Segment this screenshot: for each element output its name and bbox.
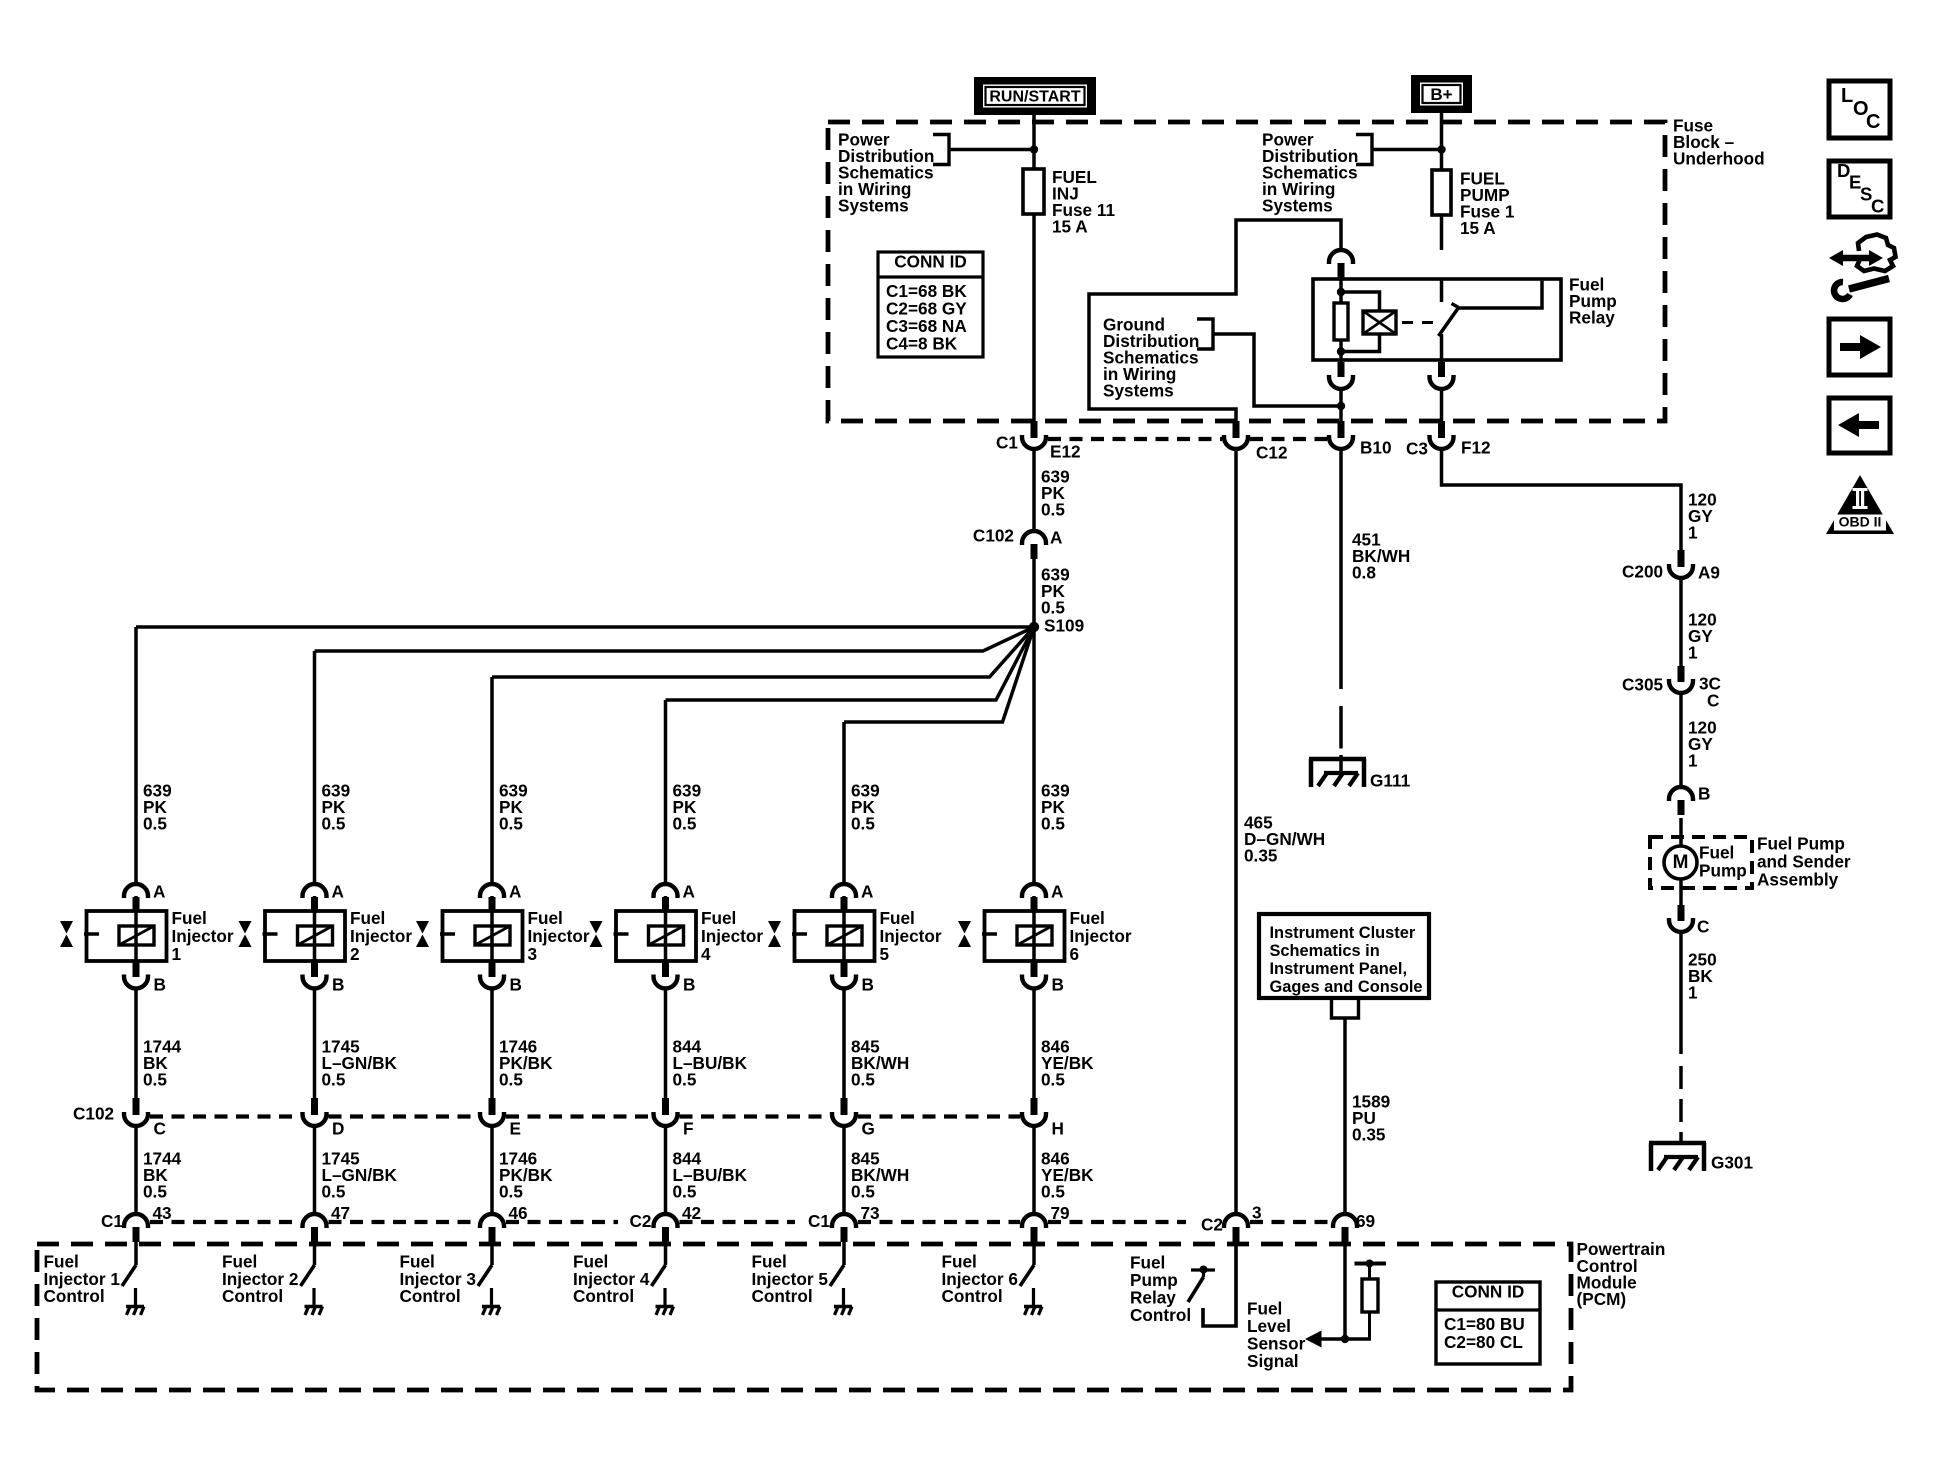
svg-text:C3: C3: [1406, 439, 1428, 459]
svg-text:69: 69: [1356, 1211, 1375, 1231]
svg-text:Control: Control: [222, 1286, 283, 1306]
svg-text:0.5: 0.5: [851, 1182, 875, 1202]
svg-text:G: G: [862, 1119, 875, 1139]
svg-text:Control: Control: [44, 1286, 105, 1306]
svg-text:Control: Control: [400, 1286, 461, 1306]
svg-text:0.5: 0.5: [499, 1182, 523, 1202]
svg-text:B: B: [332, 975, 344, 995]
svg-text:Instrument Panel,: Instrument Panel,: [1270, 960, 1408, 978]
svg-text:0.5: 0.5: [499, 814, 523, 834]
svg-text:C102: C102: [73, 1104, 114, 1124]
svg-text:2: 2: [350, 944, 360, 964]
svg-text:Relay: Relay: [1569, 308, 1615, 328]
svg-text:CONN ID: CONN ID: [1452, 1282, 1525, 1302]
svg-text:B: B: [862, 975, 874, 995]
svg-text:0.5: 0.5: [673, 1182, 697, 1202]
svg-text:1: 1: [1688, 983, 1698, 1003]
svg-text:B10: B10: [1360, 438, 1392, 458]
svg-text:C2: C2: [1201, 1215, 1223, 1235]
svg-text:Schematics in: Schematics in: [1270, 942, 1380, 960]
svg-text:C1=80 BU: C1=80 BU: [1444, 1314, 1525, 1334]
svg-text:Signal: Signal: [1247, 1351, 1299, 1371]
svg-text:F12: F12: [1461, 438, 1491, 458]
svg-text:C: C: [1871, 196, 1884, 217]
svg-text:Control: Control: [942, 1286, 1003, 1306]
svg-text:G301: G301: [1711, 1153, 1753, 1173]
svg-text:A: A: [153, 882, 165, 902]
svg-text:Systems: Systems: [1103, 381, 1174, 401]
svg-text:0.5: 0.5: [322, 814, 346, 834]
svg-text:0.5: 0.5: [143, 814, 167, 834]
svg-text:Control: Control: [752, 1286, 813, 1306]
svg-text:B: B: [683, 975, 695, 995]
svg-text:Fuel: Fuel: [1699, 843, 1734, 863]
svg-text:0.5: 0.5: [1041, 814, 1065, 834]
svg-text:Fuel Pump: Fuel Pump: [1757, 834, 1845, 854]
svg-text:OBD II: OBD II: [1839, 513, 1882, 529]
svg-text:G111: G111: [1370, 771, 1411, 791]
svg-text:L: L: [1841, 85, 1853, 107]
svg-text:6: 6: [1070, 944, 1080, 964]
svg-text:B+: B+: [1430, 85, 1452, 104]
svg-text:Underhood: Underhood: [1673, 149, 1765, 169]
svg-text:E: E: [510, 1119, 521, 1139]
svg-text:0.5: 0.5: [673, 814, 697, 834]
svg-text:A9: A9: [1698, 563, 1720, 583]
svg-text:C200: C200: [1622, 562, 1663, 582]
svg-text:C305: C305: [1622, 675, 1664, 695]
svg-text:0.8: 0.8: [1352, 563, 1376, 583]
svg-text:A: A: [861, 882, 873, 902]
svg-text:0.5: 0.5: [1041, 1070, 1065, 1090]
svg-text:B: B: [1052, 975, 1064, 995]
svg-text:C: C: [1707, 691, 1719, 711]
svg-text:15 A: 15 A: [1460, 218, 1496, 238]
svg-text:C: C: [1866, 111, 1880, 133]
svg-text:0.5: 0.5: [499, 1070, 523, 1090]
svg-text:A: A: [1051, 882, 1063, 902]
svg-text:5: 5: [880, 944, 890, 964]
svg-text:C1: C1: [996, 433, 1018, 453]
svg-text:A: A: [1050, 528, 1062, 548]
svg-text:15 A: 15 A: [1052, 217, 1088, 237]
svg-text:CONN ID: CONN ID: [894, 252, 967, 272]
svg-text:C: C: [1697, 917, 1709, 937]
svg-text:Pump: Pump: [1699, 861, 1747, 881]
svg-text:D: D: [332, 1119, 344, 1139]
svg-text:Assembly: Assembly: [1757, 870, 1839, 890]
svg-text:0.5: 0.5: [1041, 1182, 1065, 1202]
svg-text:Control: Control: [573, 1286, 634, 1306]
svg-text:0.5: 0.5: [143, 1070, 167, 1090]
svg-text:1: 1: [172, 944, 182, 964]
svg-text:and Sender: and Sender: [1757, 852, 1851, 872]
svg-text:1: 1: [1688, 523, 1698, 543]
svg-text:E12: E12: [1050, 442, 1081, 462]
svg-text:0.5: 0.5: [851, 1070, 875, 1090]
svg-text:B: B: [154, 975, 166, 995]
svg-text:Instrument Cluster: Instrument Cluster: [1270, 924, 1416, 942]
svg-text:RUN/START: RUN/START: [989, 88, 1080, 105]
svg-text:1: 1: [1688, 751, 1698, 771]
svg-text:B: B: [510, 975, 522, 995]
svg-text:0.5: 0.5: [673, 1070, 697, 1090]
svg-text:M: M: [1673, 852, 1689, 873]
svg-text:0.5: 0.5: [143, 1182, 167, 1202]
svg-text:C2: C2: [630, 1211, 652, 1231]
svg-text:C2=80 CL: C2=80 CL: [1444, 1332, 1523, 1352]
svg-text:A: A: [509, 882, 521, 902]
svg-text:0.5: 0.5: [322, 1070, 346, 1090]
svg-text:B: B: [1698, 784, 1710, 804]
svg-text:A: A: [683, 882, 695, 902]
svg-text:C102: C102: [973, 526, 1014, 546]
svg-text:Gages and Console: Gages and Console: [1270, 978, 1423, 996]
svg-text:0.5: 0.5: [851, 814, 875, 834]
svg-text:F: F: [683, 1119, 694, 1139]
svg-text:0.5: 0.5: [1041, 500, 1065, 520]
svg-text:C1: C1: [101, 1211, 123, 1231]
svg-text:H: H: [1052, 1119, 1064, 1139]
svg-text:3: 3: [1252, 1203, 1262, 1223]
svg-text:C12: C12: [1256, 443, 1288, 463]
svg-text:4: 4: [701, 944, 711, 964]
svg-text:S109: S109: [1044, 616, 1084, 636]
svg-text:Systems: Systems: [838, 196, 909, 216]
svg-text:A: A: [332, 882, 344, 902]
svg-text:C4=8 BK: C4=8 BK: [886, 334, 958, 354]
svg-text:C1: C1: [808, 1211, 830, 1231]
svg-text:0.35: 0.35: [1244, 846, 1278, 866]
svg-text:0.5: 0.5: [322, 1182, 346, 1202]
svg-text:Control: Control: [1130, 1305, 1191, 1325]
svg-text:C: C: [154, 1119, 166, 1139]
svg-text:(PCM): (PCM): [1577, 1289, 1627, 1309]
svg-text:3: 3: [528, 944, 538, 964]
svg-text:1: 1: [1688, 643, 1698, 663]
svg-text:0.5: 0.5: [1041, 598, 1065, 618]
svg-text:Systems: Systems: [1262, 196, 1333, 216]
svg-text:0.35: 0.35: [1352, 1125, 1386, 1145]
